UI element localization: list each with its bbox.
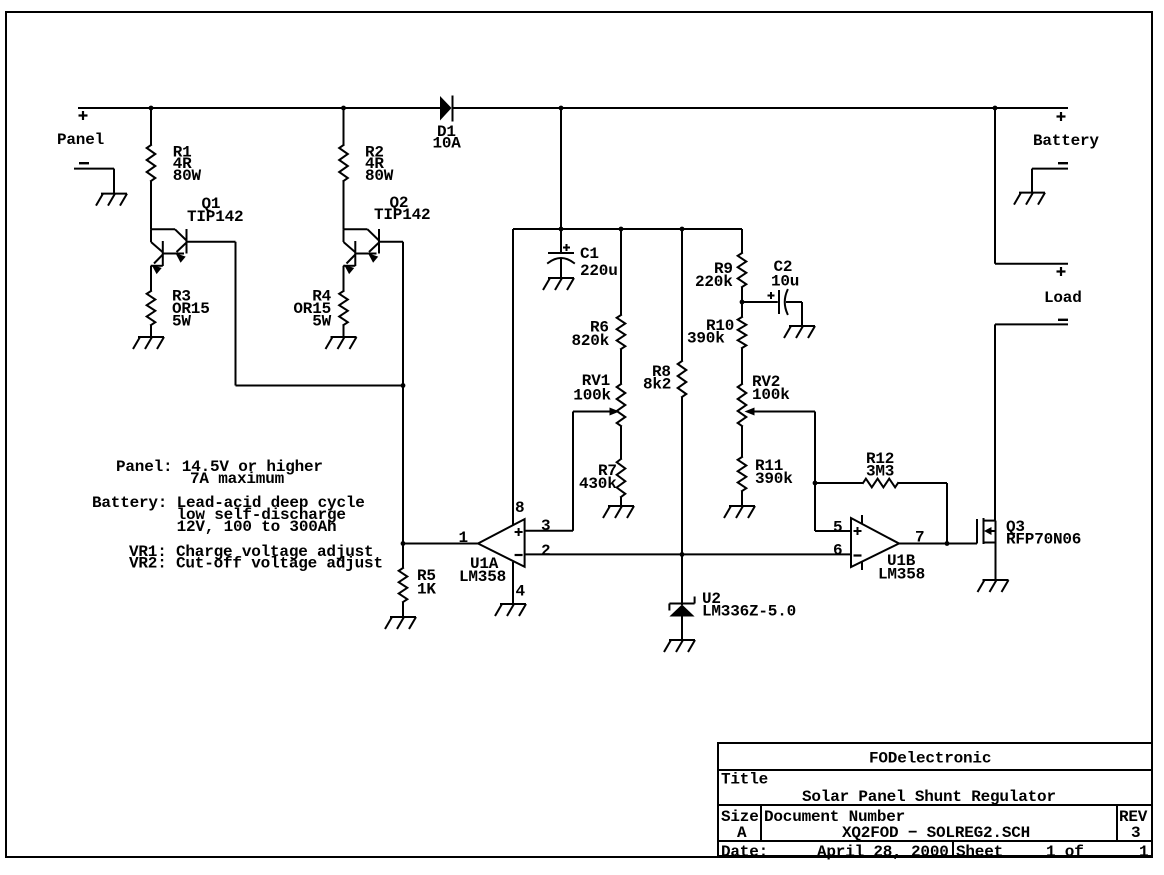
wire load to Q3 drain [994, 324, 996, 520]
svg-text:390k: 390k [687, 329, 725, 347]
svg-text:LM358: LM358 [459, 568, 506, 586]
svg-text:C1: C1 [580, 245, 599, 263]
wire Q1 base to junction [187, 241, 236, 243]
U1A pin1 output wire [403, 543, 478, 545]
svg-text:8k2: 8k2 [643, 375, 671, 393]
wire top rail right of D1 [453, 107, 1069, 109]
U1B bottom pin stub [861, 562, 863, 571]
resistor R1 [147, 145, 156, 181]
svg-text:12V, 100 to 300Ah: 12V, 100 to 300Ah [177, 518, 337, 536]
wire node to R5 [402, 544, 404, 569]
wire rail to R2 [343, 108, 345, 145]
load - terminal [1058, 319, 1068, 321]
resistor R4 [339, 291, 348, 325]
ground battery [1019, 192, 1045, 194]
ground R7 [608, 505, 634, 507]
wire R12 to pin7 node [898, 482, 947, 484]
ground C1 [548, 277, 574, 279]
node bus-R8 [680, 227, 685, 232]
resistor R11 [738, 457, 747, 491]
node R8-U2-invert [680, 552, 685, 557]
transistor Q2 TIP142 [344, 228, 368, 230]
node pin7-R12 [945, 541, 950, 546]
U1A pin4 wire [512, 562, 514, 604]
title block dividers [760, 805, 762, 841]
svg-text:820k: 820k [572, 332, 610, 350]
svg-text:VR2: Cut-off voltage adjust: VR2: Cut-off voltage adjust [129, 554, 383, 572]
svg-text:April 28, 2000: April 28, 2000 [817, 843, 949, 861]
wire base junction to op-amp node [236, 385, 404, 387]
svg-text:100k: 100k [573, 386, 611, 404]
U1B pin7 wire [899, 543, 977, 545]
svg-text:Panel: Panel [57, 131, 104, 149]
resistor R2 [339, 145, 348, 181]
svg-text:5W: 5W [172, 312, 191, 330]
svg-text:10A: 10A [433, 134, 462, 152]
wire RV1 wiper to pin3 [572, 412, 574, 531]
wire load minus [995, 323, 1068, 325]
load + terminal [1057, 270, 1066, 272]
svg-text:6: 6 [833, 541, 842, 559]
title block row lines [718, 769, 1152, 771]
ground R5 [390, 616, 416, 618]
ground U1A pin4 [500, 603, 526, 605]
RV2 wiper arrow [745, 408, 755, 416]
wire battery minus to ground [1032, 168, 1068, 170]
ground R11 [729, 505, 755, 507]
wire R7 to ground [620, 497, 622, 506]
wire top rail left of D1 [78, 107, 440, 109]
svg-text:7A maximum: 7A maximum [190, 470, 285, 488]
wire bus to R6 [620, 229, 622, 315]
panel - terminal [79, 162, 89, 164]
svg-text:3: 3 [541, 517, 550, 535]
wire rail to bus [560, 108, 562, 229]
svg-text:1: 1 [459, 529, 468, 547]
wire R3 to ground [150, 325, 152, 337]
resistor R7 [617, 459, 626, 497]
wire R10 to RV2 [741, 348, 743, 384]
wire R4 to ground [343, 325, 345, 337]
node rail-R2 [341, 106, 346, 111]
zener U2 LM336Z-5.0 [681, 554, 683, 605]
wire R2 to Q2 collector [343, 181, 345, 229]
wire Q1 emitter to R3 [150, 266, 152, 291]
svg-text:TIP142: TIP142 [374, 206, 430, 224]
battery + terminal [1057, 115, 1066, 117]
U1B top pin stub [861, 515, 863, 524]
wire R1 to Q1 collector [150, 181, 152, 229]
transistor Q1 TIP142 [151, 228, 175, 230]
node pin1 [401, 541, 406, 546]
resistor R8 [678, 361, 687, 397]
svg-text:430k: 430k [579, 475, 617, 493]
svg-text:Load: Load [1044, 289, 1082, 307]
svg-text:220u: 220u [580, 262, 618, 280]
wire bus corner to R9 [741, 229, 743, 253]
svg-text:10u: 10u [771, 272, 799, 290]
svg-text:3M3: 3M3 [866, 462, 894, 480]
wire RV2 wiper down to pin5 [814, 412, 816, 532]
svg-text:LM358: LM358 [878, 565, 925, 583]
svg-text:1 of: 1 of [1046, 843, 1084, 861]
U1B pin5 wire [815, 530, 851, 532]
svg-text:3: 3 [1131, 824, 1140, 842]
svg-text:100k: 100k [752, 386, 790, 404]
wire bus to R8 [681, 229, 683, 361]
svg-text:FODelectronic: FODelectronic [869, 749, 991, 767]
resistor R3 [147, 291, 156, 325]
svg-text:TIP142: TIP142 [187, 208, 243, 226]
svg-text:8: 8 [515, 499, 524, 517]
node bus-C1 [559, 227, 564, 232]
panel + terminal [79, 114, 88, 116]
wire R5 to ground [402, 602, 404, 617]
svg-text:Date:: Date: [721, 843, 768, 861]
ground R4 [331, 336, 357, 338]
svg-text:390k: 390k [755, 470, 793, 488]
op-amp U1B LM358 [851, 518, 899, 567]
node rail-R1 [149, 106, 154, 111]
transistor Q3 RFP70N06 [976, 519, 978, 544]
svg-text:Solar Panel Shunt Regulator: Solar Panel Shunt Regulator [802, 788, 1056, 806]
svg-text:RFP70N06: RFP70N06 [1006, 530, 1081, 548]
wire Q2 emitter to R4 [343, 266, 345, 291]
svg-text:LM336Z-5.0: LM336Z-5.0 [702, 602, 796, 620]
svg-text:1: 1 [1139, 843, 1148, 861]
wire R9 to node [741, 287, 743, 317]
svg-text:4: 4 [516, 582, 526, 600]
resistor R9 [738, 253, 747, 287]
potentiometer RV1 100k [617, 384, 626, 426]
wire R11 to ground [741, 491, 743, 506]
wire panel minus to ground [74, 168, 114, 170]
ground R3 [138, 336, 164, 338]
svg-text:A: A [737, 824, 747, 842]
node rail-battery [993, 106, 998, 111]
ground panel [101, 193, 127, 195]
resistor R6 [617, 315, 626, 349]
node R9-R10-C2 [740, 300, 745, 305]
wire rail node to battery branch [994, 108, 996, 264]
svg-text:5W: 5W [312, 312, 331, 330]
wire RV2 branch to R12 [815, 482, 863, 484]
wire mid supply bus [513, 228, 742, 230]
diode D1 [440, 96, 452, 121]
op-amp U1A LM358 [478, 519, 525, 567]
svg-text:80W: 80W [173, 167, 202, 185]
node rail-C1 [559, 106, 564, 111]
wire RV2 to R11 [741, 426, 743, 457]
svg-text:2: 2 [541, 542, 550, 560]
resistor R10 [738, 317, 747, 348]
wire RV1 to R7 [620, 426, 622, 459]
capacitor C2 10u [742, 301, 778, 303]
wire Q2 base down [379, 241, 403, 243]
node bus-R6 [619, 227, 624, 232]
resistor R12 [863, 479, 898, 488]
node RV2-R12 [813, 481, 818, 486]
svg-text:XQ2FOD − SOLREG2.SCH: XQ2FOD − SOLREG2.SCH [842, 824, 1030, 842]
potentiometer RV2 100k [738, 384, 747, 426]
svg-text:7: 7 [915, 528, 924, 546]
resistor R5 [399, 568, 408, 602]
svg-text:Title: Title [721, 770, 768, 788]
wire bus to U1A pin8 [512, 229, 514, 525]
svg-text:1K: 1K [417, 580, 436, 598]
svg-text:5: 5 [833, 518, 842, 536]
wire R6 to RV1 [620, 349, 622, 384]
svg-text:220k: 220k [695, 273, 733, 291]
svg-text:Sheet: Sheet [956, 843, 1003, 861]
node base junction [401, 383, 406, 388]
capacitor C1 220u [560, 229, 562, 253]
ground U2 [669, 639, 695, 641]
ground C2 [789, 325, 815, 327]
ground Q3 source [983, 579, 1009, 581]
RV1 wiper arrow [610, 408, 620, 416]
wire R8 to inverting line [681, 397, 683, 554]
wire load plus [995, 263, 1068, 265]
title block frame [718, 743, 1152, 856]
svg-text:Battery: Battery [1033, 132, 1099, 150]
svg-text:80W: 80W [365, 167, 394, 185]
U1A pin2 wire to U1B pin6 [525, 553, 851, 555]
wire rail to R1 [150, 108, 152, 145]
battery - terminal [1058, 162, 1068, 164]
